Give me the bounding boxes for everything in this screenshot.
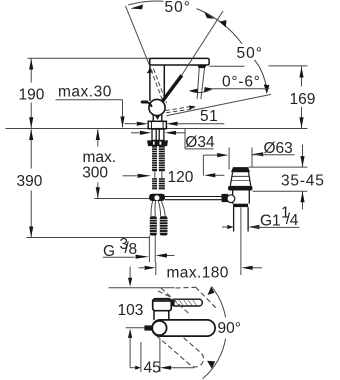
- svg-text:G: G: [103, 243, 115, 260]
- faucet body column: [150, 65, 164, 101]
- svg-text:8: 8: [129, 241, 138, 258]
- leader from right 50 label: [255, 60, 267, 88]
- label Ø34 with leader box: [131, 129, 214, 149]
- dimension 169: [299, 66, 303, 128]
- aerator stream legs: [197, 68, 199, 99]
- drain flange: [228, 186, 253, 191]
- svg-text:50°: 50°: [165, 0, 191, 16]
- dimension max.30: [56, 100, 125, 128]
- hose connector left: [150, 216, 157, 235]
- dimension 45: [130, 339, 194, 373]
- ball joint: [149, 99, 165, 115]
- top view pivot reference line: [126, 327, 145, 329]
- svg-text:35-45: 35-45: [281, 173, 325, 190]
- neck below ball: [153, 115, 162, 122]
- top view spout capsule: [152, 320, 215, 336]
- svg-text:Ø63: Ø63: [264, 140, 293, 157]
- G3/8 connection tube: [148, 236, 150, 263]
- svg-text:Ø34: Ø34: [185, 134, 215, 151]
- svg-text:190: 190: [19, 87, 45, 104]
- svg-text:390: 390: [17, 173, 43, 190]
- label G 3/8: [103, 253, 175, 258]
- threaded shank section 2: [152, 178, 165, 190]
- dimension max.180: [139, 262, 263, 275]
- top view lever: [171, 299, 202, 306]
- wire top reference line right (spout underside to 169): [210, 65, 245, 67]
- rod cores between sections: [154, 171, 156, 178]
- svg-text:120: 120: [168, 169, 194, 186]
- top view body: [154, 311, 169, 320]
- small arc 0-6 with arrows: [191, 89, 213, 93]
- svg-text:51: 51: [200, 108, 218, 125]
- label G1 1/4: [222, 225, 300, 229]
- wire pop-up rod reference line: [95, 198, 151, 200]
- base block: [148, 121, 166, 128]
- 0-6 underline: [207, 89, 269, 92]
- dimension 35-45: [249, 145, 308, 210]
- drain lower body: [233, 191, 250, 204]
- hose connector right: [160, 216, 168, 235]
- svg-text:300: 300: [82, 165, 108, 182]
- pivot tab: [144, 325, 152, 330]
- dashed lever position: [151, 69, 167, 104]
- solid 6deg line: [166, 94, 271, 115]
- 103 dimension line: [128, 267, 132, 368]
- svg-text:50°: 50°: [237, 45, 263, 62]
- faucet spout plate: [150, 58, 209, 65]
- top view knob: [153, 299, 172, 311]
- arc 90 degrees: [211, 286, 225, 317]
- lever handle rod: [161, 75, 182, 103]
- dimension 190: [29, 58, 33, 128]
- arc 50 top: [128, 1, 163, 5]
- dashed 0-6 lines right: [166, 106, 195, 113]
- dimension 390: [29, 129, 33, 237]
- dimension max.300: [96, 129, 100, 198]
- drain pop-up waste cap: [231, 167, 250, 172]
- aerator black mark: [197, 65, 206, 68]
- dimension 120 leader: [123, 174, 152, 178]
- svg-text:45: 45: [144, 359, 161, 376]
- drain tailpipe: [234, 207, 249, 231]
- top view back reference line: [109, 287, 175, 289]
- drain centerline: [240, 208, 242, 276]
- drain bottom ring: [233, 204, 248, 207]
- svg-text:max.30: max.30: [58, 84, 112, 101]
- dimension 51: [125, 122, 225, 126]
- svg-text:90°: 90°: [218, 320, 241, 337]
- lever construction line extension: [182, 11, 224, 76]
- mounting nut: [147, 140, 168, 146]
- svg-text:0°-6°: 0°-6°: [222, 73, 261, 90]
- mounting collar below counter: [152, 129, 164, 140]
- svg-text:169: 169: [290, 91, 316, 108]
- capsule inner circle: [152, 321, 166, 335]
- svg-text:4: 4: [290, 212, 299, 229]
- dashed rotated position upper lines: [158, 287, 216, 315]
- node junction blob: [149, 194, 165, 201]
- rod ball joint at drain: [227, 195, 235, 203]
- wire bottom reference line 390: [27, 237, 150, 239]
- label Ø63 with leader: [203, 148, 294, 178]
- arrowhead at plate corner: [147, 67, 153, 73]
- dashed rotated spout capsule lower: [149, 317, 207, 371]
- pop-up knob: [222, 194, 229, 202]
- left hook lever: [141, 101, 149, 104]
- lever tilt construction line: [126, 6, 151, 67]
- threaded shank section 1: [152, 146, 165, 171]
- svg-text:max.: max.: [83, 149, 117, 166]
- svg-text:max.180: max.180: [167, 264, 229, 281]
- pop-up rod horizontal to drain: [165, 197, 222, 200]
- wire counter top line: [6, 128, 308, 130]
- supply hose left curve: [151, 201, 153, 216]
- svg-text:G1: G1: [260, 212, 281, 229]
- svg-text:103: 103: [118, 302, 144, 319]
- supply hose right curve: [158, 201, 160, 216]
- wire top reference line left (spout top level): [28, 57, 151, 59]
- drain neck: [230, 172, 251, 186]
